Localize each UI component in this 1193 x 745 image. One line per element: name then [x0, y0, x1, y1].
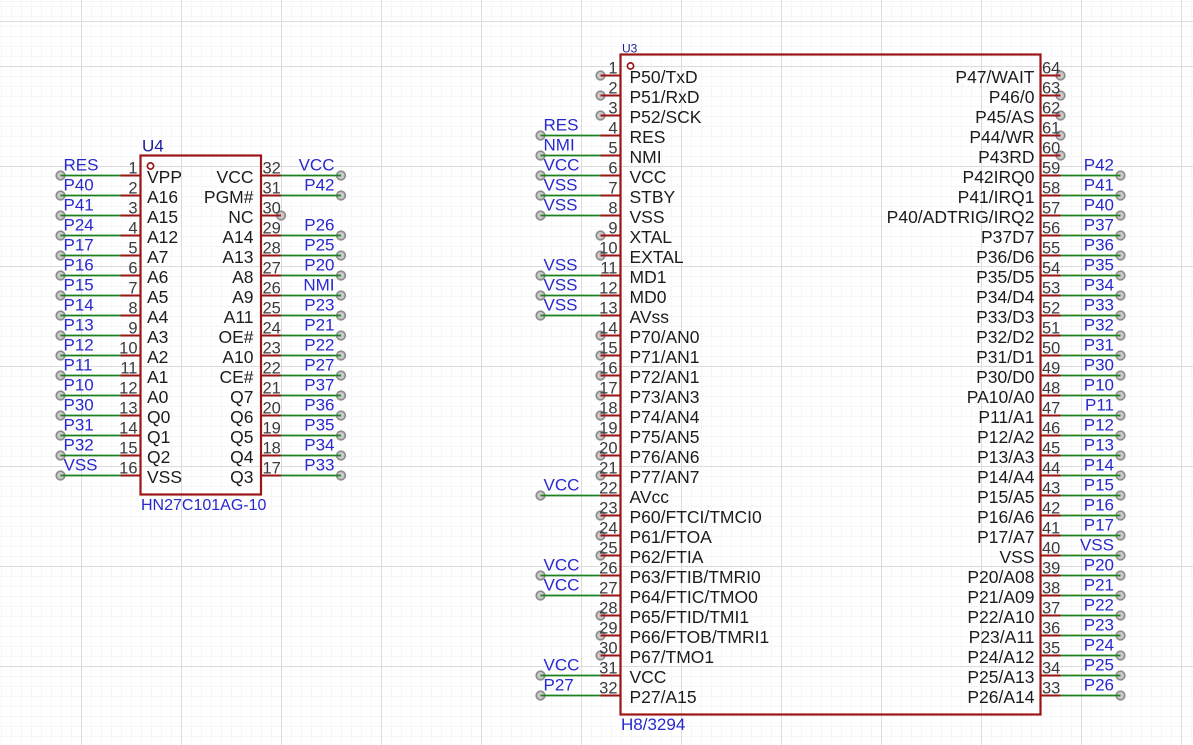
svg-text:P22: P22: [1084, 596, 1114, 615]
terminal U4 pin 13: [56, 411, 65, 420]
U3 pin 48 (PA10/A0): [967, 380, 1061, 408]
terminal U4 pin 24: [337, 331, 346, 340]
svg-text:26: 26: [599, 560, 617, 578]
U3 pin 30 (P67/TMO1): [599, 640, 714, 668]
terminal U3 pin 43: [1116, 491, 1125, 500]
unconnected terminal U3 pin 3: [596, 111, 605, 120]
IC U4 HN27C101AG-10 body: [141, 156, 262, 495]
wire net P23 to U3 pin 36: [1061, 635, 1121, 637]
U3 pin 29 (P66/FTOB/TMRI1): [599, 620, 769, 648]
svg-text:Q1: Q1: [147, 427, 170, 447]
svg-text:P25: P25: [1084, 656, 1114, 675]
svg-text:42: 42: [1042, 500, 1060, 518]
terminal U3 pin 33: [1116, 691, 1125, 700]
wire net P24 to U3 pin 35: [1061, 655, 1121, 657]
svg-text:22: 22: [599, 480, 617, 498]
svg-text:P16: P16: [64, 256, 94, 275]
wire net P14 to U4 pin 8: [61, 315, 121, 317]
terminal U3 pin 13: [536, 311, 545, 320]
svg-text:P42: P42: [304, 176, 334, 195]
svg-text:P12: P12: [64, 336, 94, 355]
svg-text:28: 28: [599, 600, 617, 618]
unconnected terminal U3 pin 21: [596, 471, 605, 480]
svg-text:58: 58: [1042, 180, 1060, 198]
U4 pin 16 (VSS): [119, 460, 182, 488]
U4 pin 5 (A7): [121, 240, 169, 268]
wire net VCC to U3 pin 27: [541, 595, 601, 597]
U3 pin 28 (P65/FTID/TMI1): [599, 600, 749, 628]
wire net P41 to U4 pin 3: [61, 215, 121, 217]
svg-text:35: 35: [1042, 640, 1060, 658]
svg-text:P51/RxD: P51/RxD: [630, 87, 700, 107]
svg-text:P36/D6: P36/D6: [976, 247, 1034, 267]
terminal U4 pin 20: [337, 411, 346, 420]
svg-text:13: 13: [119, 400, 137, 418]
terminal U4 pin 5: [56, 251, 65, 260]
svg-text:MD0: MD0: [630, 287, 667, 307]
wire net P15 to U3 pin 43: [1061, 495, 1121, 497]
unconnected terminal U3 pin 10: [596, 251, 605, 260]
U3 pin 43 (P15/A5): [977, 480, 1060, 508]
U3 pin 41 (P17/A7): [977, 520, 1060, 548]
U4 pin 4 (A12): [121, 220, 179, 248]
svg-text:P36: P36: [1084, 236, 1114, 255]
terminal U3 pin 40: [1116, 551, 1125, 560]
svg-text:30: 30: [599, 640, 617, 658]
svg-text:P21: P21: [1084, 576, 1114, 595]
svg-text:56: 56: [1042, 220, 1060, 238]
svg-text:22: 22: [263, 360, 281, 378]
wire net P26 to U4 pin 29: [281, 235, 341, 237]
svg-text:P35/D5: P35/D5: [976, 267, 1034, 287]
wire net P16 to U4 pin 6: [61, 275, 121, 277]
unconnected terminal U3 pin 30: [596, 651, 605, 660]
svg-text:P27: P27: [544, 676, 574, 695]
svg-text:VPP: VPP: [147, 167, 182, 187]
wire net VSS to U3 pin 11: [541, 275, 601, 277]
wire net P35 to U3 pin 54: [1061, 275, 1121, 277]
terminal U4 pin 25: [337, 311, 346, 320]
wire net VSS to U3 pin 12: [541, 295, 601, 297]
svg-text:34: 34: [1042, 660, 1060, 678]
svg-text:A3: A3: [147, 327, 168, 347]
svg-text:P52/SCK: P52/SCK: [630, 107, 702, 127]
U4 pin 19 (Q5): [230, 420, 281, 448]
U3 pin 45 (P13/A3): [977, 440, 1060, 468]
wire net P20 to U3 pin 39: [1061, 575, 1121, 577]
svg-text:30: 30: [263, 200, 281, 218]
svg-text:39: 39: [1042, 560, 1060, 578]
terminal U4 pin 2: [56, 191, 65, 200]
wire net VCC to U3 pin 22: [541, 495, 601, 497]
svg-text:P14/A4: P14/A4: [977, 467, 1035, 487]
terminal U3 pin 57: [1116, 211, 1125, 220]
U3 pin 34 (P25/A13): [967, 660, 1060, 688]
U3 pin 54 (P35/D5): [976, 260, 1060, 288]
U3 pin 2 (P51/RxD): [601, 80, 700, 108]
svg-text:17: 17: [599, 380, 617, 398]
U4 pin 29 (A14): [222, 220, 281, 248]
svg-text:P34: P34: [304, 436, 334, 455]
unconnected terminal U3 pin 24: [596, 531, 605, 540]
svg-text:VSS: VSS: [544, 296, 578, 315]
wire net P24 to U4 pin 4: [61, 235, 121, 237]
svg-text:A15: A15: [147, 207, 178, 227]
svg-text:CE#: CE#: [219, 367, 253, 387]
svg-text:P24: P24: [64, 216, 94, 235]
terminal U4 pin 26: [337, 291, 346, 300]
svg-text:P15: P15: [1084, 476, 1114, 495]
svg-text:A10: A10: [222, 347, 253, 367]
terminal U4 pin 11: [56, 371, 65, 380]
svg-text:OE#: OE#: [218, 327, 253, 347]
svg-text:A7: A7: [147, 247, 168, 267]
svg-text:PA10/A0: PA10/A0: [967, 387, 1035, 407]
terminal U4 pin 4: [56, 231, 65, 240]
U3 pin 38 (P21/A09): [967, 580, 1060, 608]
svg-text:P21/A09: P21/A09: [967, 587, 1034, 607]
U3 pin 47 (P11/A1): [978, 400, 1060, 428]
svg-text:P37: P37: [1084, 216, 1114, 235]
terminal U3 pin 32: [536, 691, 545, 700]
unconnected terminal U3 pin 25: [596, 551, 605, 560]
svg-text:17: 17: [263, 460, 281, 478]
svg-text:P46/0: P46/0: [989, 87, 1035, 107]
wire net VCC to U4 pin 32: [281, 175, 341, 177]
svg-text:P17: P17: [64, 236, 94, 255]
svg-text:NC: NC: [228, 207, 253, 227]
U3 pin 57 (P40/ADTRIG/IRQ2): [887, 200, 1061, 228]
svg-text:P31: P31: [64, 416, 94, 435]
wire net P17 to U4 pin 5: [61, 255, 121, 257]
wire net P33 to U3 pin 52: [1061, 315, 1121, 317]
U3 pin 36 (P23/A11): [969, 620, 1061, 648]
svg-text:P23/A11: P23/A11: [969, 627, 1035, 647]
svg-text:P13: P13: [64, 316, 94, 335]
U3 pin 13 (AVss): [599, 300, 669, 328]
wire net P31 to U3 pin 50: [1061, 355, 1121, 357]
wire net P26 to U3 pin 33: [1061, 695, 1121, 697]
wire net P42 to U4 pin 31: [281, 195, 341, 197]
U4 pin 6 (A6): [121, 260, 169, 288]
svg-text:AVcc: AVcc: [630, 487, 670, 507]
svg-text:2: 2: [608, 80, 617, 98]
svg-text:60: 60: [1042, 140, 1060, 158]
svg-text:37: 37: [1042, 600, 1060, 618]
U3 pin 52 (P33/D3): [976, 300, 1060, 328]
svg-text:P41/IRQ1: P41/IRQ1: [958, 187, 1035, 207]
terminal U3 pin 52: [1116, 311, 1125, 320]
wire net VSS to U3 pin 7: [541, 195, 601, 197]
U3 pin 8 (VSS): [601, 200, 665, 228]
svg-text:RES: RES: [630, 127, 666, 147]
svg-text:5: 5: [608, 140, 617, 158]
svg-text:RES: RES: [544, 116, 579, 135]
svg-text:4: 4: [128, 220, 137, 238]
svg-text:VCC: VCC: [299, 156, 335, 175]
svg-text:P30: P30: [1084, 356, 1114, 375]
svg-text:U3: U3: [622, 42, 638, 56]
svg-text:5: 5: [128, 240, 137, 258]
U4 pin 13 (Q0): [119, 400, 170, 428]
wire net VCC to U3 pin 6: [541, 175, 601, 177]
wire net P41 to U3 pin 58: [1061, 195, 1121, 197]
svg-text:A16: A16: [147, 187, 178, 207]
wire net P40 to U3 pin 57: [1061, 215, 1121, 217]
U3 pin 14 (P70/AN0): [599, 320, 700, 348]
svg-text:3: 3: [128, 200, 137, 218]
svg-text:P11: P11: [64, 356, 93, 375]
svg-text:EXTAL: EXTAL: [630, 247, 684, 267]
U3 pin 60 (P43RD): [978, 140, 1060, 168]
U3 pin 1 (P50/TxD): [601, 60, 698, 88]
U3 pin 44 (P14/A4): [977, 460, 1060, 488]
wire net P37 to U4 pin 21: [281, 395, 341, 397]
svg-text:48: 48: [1042, 380, 1060, 398]
svg-text:53: 53: [1042, 280, 1060, 298]
wire net P27 to U4 pin 22: [281, 375, 341, 377]
U4 pin 15 (Q2): [119, 440, 170, 468]
terminal U3 pin 54: [1116, 271, 1125, 280]
svg-text:33: 33: [1042, 680, 1060, 698]
terminal U4 pin 27: [337, 271, 346, 280]
svg-text:45: 45: [1042, 440, 1060, 458]
svg-text:20: 20: [263, 400, 281, 418]
svg-text:50: 50: [1042, 340, 1060, 358]
svg-text:A2: A2: [147, 347, 168, 367]
U3 pin 21 (P77/AN7): [599, 460, 699, 488]
svg-text:U4: U4: [142, 137, 164, 156]
wire net VCC to U3 pin 31: [541, 675, 601, 677]
svg-text:9: 9: [128, 320, 137, 338]
U4 pin 26 (A9): [232, 280, 281, 308]
terminal U4 pin 18: [337, 451, 346, 460]
svg-text:P40/ADTRIG/IRQ2: P40/ADTRIG/IRQ2: [887, 207, 1035, 227]
svg-text:P41: P41: [1084, 176, 1114, 195]
wire net P42 to U3 pin 59: [1061, 175, 1121, 177]
wire net P14 to U3 pin 44: [1061, 475, 1121, 477]
wire net P16 to U3 pin 42: [1061, 515, 1121, 517]
svg-text:XTAL: XTAL: [630, 227, 673, 247]
terminal U4 pin 8: [56, 311, 65, 320]
svg-text:59: 59: [1042, 160, 1060, 178]
svg-text:P33: P33: [1084, 296, 1114, 315]
wire net P23 to U4 pin 25: [281, 315, 341, 317]
terminal U3 pin 11: [536, 271, 545, 280]
U4 pin 23 (A10): [222, 340, 281, 368]
svg-text:63: 63: [1042, 80, 1060, 98]
svg-text:A5: A5: [147, 287, 168, 307]
svg-text:P26/A14: P26/A14: [967, 687, 1034, 707]
svg-text:P45/AS: P45/AS: [975, 107, 1034, 127]
svg-text:VCC: VCC: [544, 556, 580, 575]
U4 pin 22 (CE#): [219, 360, 281, 388]
svg-text:15: 15: [599, 340, 617, 358]
U4 pin 2 (A16): [121, 180, 179, 208]
svg-text:P11: P11: [1085, 396, 1114, 415]
terminal U3 pin 45: [1116, 451, 1125, 460]
wire net VSS to U3 pin 13: [541, 315, 601, 317]
wire net RES to U4 pin 1: [61, 175, 121, 177]
terminal U3 pin 26: [536, 571, 545, 580]
wire net RES to U3 pin 4: [541, 135, 601, 137]
unconnected terminal U3 pin 20: [596, 451, 605, 460]
wire net P30 to U3 pin 49: [1061, 375, 1121, 377]
terminal U3 pin 31: [536, 671, 545, 680]
svg-text:24: 24: [599, 520, 617, 538]
svg-text:A8: A8: [232, 267, 253, 287]
terminal U4 pin 6: [56, 271, 65, 280]
U3 pin 55 (P36/D6): [976, 240, 1060, 268]
svg-text:P44/WR: P44/WR: [969, 127, 1034, 147]
wire net VSS to U3 pin 8: [541, 215, 601, 217]
terminal U3 pin 58: [1116, 191, 1125, 200]
svg-text:VCC: VCC: [544, 656, 580, 675]
wire net P25 to U4 pin 28: [281, 255, 341, 257]
svg-text:25: 25: [599, 540, 617, 558]
svg-text:32: 32: [263, 160, 281, 178]
U4 pin 25 (A11): [224, 300, 281, 328]
terminal U4 pin 10: [56, 351, 65, 360]
unconnected terminal U4 pin 30: [277, 211, 286, 220]
svg-text:A6: A6: [147, 267, 168, 287]
svg-text:P65/FTID/TMI1: P65/FTID/TMI1: [630, 607, 750, 627]
U3 pin 4 (RES): [601, 120, 666, 148]
terminal U3 pin 56: [1116, 231, 1125, 240]
terminal U3 pin 50: [1116, 351, 1125, 360]
svg-text:A14: A14: [222, 227, 253, 247]
U3 pin 64 (P47/WAIT): [955, 60, 1060, 88]
terminal U3 pin 42: [1116, 511, 1125, 520]
wire net P34 to U4 pin 18: [281, 455, 341, 457]
unconnected terminal U3 pin 17: [596, 391, 605, 400]
svg-text:46: 46: [1042, 420, 1060, 438]
svg-text:Q2: Q2: [147, 447, 170, 467]
terminal U4 pin 19: [337, 431, 346, 440]
U3 pin 11 (MD1): [600, 260, 666, 288]
unconnected terminal U3 pin 62: [1056, 111, 1065, 120]
svg-text:A11: A11: [224, 307, 254, 327]
U4 pin 9 (A3): [121, 320, 169, 348]
svg-text:4: 4: [608, 120, 617, 138]
svg-text:P25/A13: P25/A13: [967, 667, 1034, 687]
svg-text:P15: P15: [64, 276, 94, 295]
terminal U3 pin 53: [1116, 291, 1125, 300]
svg-text:1: 1: [608, 60, 617, 78]
svg-text:VCC: VCC: [544, 156, 580, 175]
svg-text:6: 6: [608, 160, 617, 178]
svg-text:16: 16: [119, 460, 137, 478]
terminal U3 pin 47: [1116, 411, 1125, 420]
svg-text:3: 3: [608, 100, 617, 118]
svg-text:P64/FTIC/TMO0: P64/FTIC/TMO0: [630, 587, 759, 607]
svg-text:P40: P40: [1084, 196, 1114, 215]
svg-text:Q4: Q4: [230, 447, 254, 467]
unconnected terminal U3 pin 9: [596, 231, 605, 240]
svg-text:13: 13: [599, 300, 617, 318]
U4 pin 21 (Q7): [230, 380, 281, 408]
svg-text:P63/FTIB/TMRI0: P63/FTIB/TMRI0: [630, 567, 762, 587]
svg-text:P36: P36: [304, 396, 334, 415]
svg-text:32: 32: [599, 680, 617, 698]
U3 pin 6 (VCC): [601, 160, 667, 188]
svg-text:2: 2: [128, 180, 137, 198]
wire net P13 to U3 pin 45: [1061, 455, 1121, 457]
terminal U4 pin 16: [56, 471, 65, 480]
svg-text:P23: P23: [304, 296, 334, 315]
U4 pin 32 (VCC): [217, 160, 281, 188]
svg-text:P30: P30: [64, 396, 94, 415]
wire net P31 to U4 pin 14: [61, 435, 121, 437]
wire net P25 to U3 pin 34: [1061, 675, 1121, 677]
U3 pin 26 (P63/FTIB/TMRI0): [599, 560, 761, 588]
svg-text:20: 20: [599, 440, 617, 458]
svg-text:Q3: Q3: [230, 467, 253, 487]
svg-text:VSS: VSS: [544, 176, 578, 195]
svg-text:P10: P10: [1084, 376, 1114, 395]
svg-text:A4: A4: [147, 307, 169, 327]
svg-text:1: 1: [128, 160, 137, 178]
svg-text:VSS: VSS: [64, 456, 98, 475]
terminal U3 pin 49: [1116, 371, 1125, 380]
svg-text:19: 19: [263, 420, 281, 438]
terminal U3 pin 8: [536, 211, 545, 220]
svg-text:14: 14: [119, 420, 137, 438]
unconnected terminal U3 pin 15: [596, 351, 605, 360]
U4 pin 27 (A8): [232, 260, 281, 288]
svg-text:9: 9: [608, 220, 617, 238]
terminal U3 pin 48: [1116, 391, 1125, 400]
svg-text:P20: P20: [304, 256, 334, 275]
U3 pin 19 (P75/AN5): [599, 420, 699, 448]
wire net P13 to U4 pin 9: [61, 335, 121, 337]
wire net P32 to U4 pin 15: [61, 455, 121, 457]
U3 pin 56 (P37D7): [981, 220, 1061, 248]
U4 pin 30 (NC): [228, 200, 281, 228]
svg-text:P43RD: P43RD: [978, 147, 1034, 167]
terminal U4 pin 21: [337, 391, 346, 400]
U3 pin 31 (VCC): [599, 660, 666, 688]
U3 pin 58 (P41/IRQ1): [958, 180, 1061, 208]
svg-text:44: 44: [1042, 460, 1060, 478]
U3 pin 9 (XTAL): [601, 220, 673, 248]
svg-text:31: 31: [599, 660, 617, 678]
wire net VSS to U3 pin 40: [1061, 555, 1121, 557]
svg-text:P42: P42: [1084, 156, 1114, 175]
wire net P20 to U4 pin 27: [281, 275, 341, 277]
wire net P15 to U4 pin 7: [61, 295, 121, 297]
svg-text:P71/AN1: P71/AN1: [630, 347, 700, 367]
svg-text:7: 7: [608, 180, 617, 198]
svg-text:18: 18: [599, 400, 617, 418]
svg-text:VSS: VSS: [544, 256, 578, 275]
terminal U4 pin 14: [56, 431, 65, 440]
svg-text:Q0: Q0: [147, 407, 171, 427]
wire net VCC to U3 pin 26: [541, 575, 601, 577]
unconnected terminal U3 pin 28: [596, 611, 605, 620]
svg-text:P24: P24: [1084, 636, 1114, 655]
U3 pin 18 (P74/AN4): [599, 400, 700, 428]
svg-text:STBY: STBY: [630, 187, 676, 207]
wire net P12 to U4 pin 10: [61, 355, 121, 357]
svg-text:P60/FTCI/TMCI0: P60/FTCI/TMCI0: [630, 507, 763, 527]
svg-text:P24/A12: P24/A12: [967, 647, 1034, 667]
terminal U3 pin 34: [1116, 671, 1125, 680]
terminal U3 pin 22: [536, 491, 545, 500]
svg-text:VSS: VSS: [630, 207, 665, 227]
svg-text:51: 51: [1042, 320, 1060, 338]
wire net P10 to U4 pin 12: [61, 395, 121, 397]
